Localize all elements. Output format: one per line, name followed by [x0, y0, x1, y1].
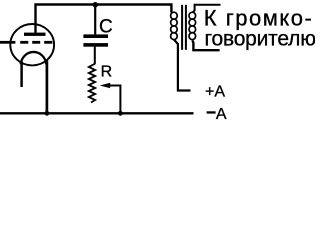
wire grid lead to left edge	[0, 41, 15, 44]
label -A minus bar	[207, 111, 216, 113]
tube V1 grid dashes	[20, 41, 28, 44]
capacitor C top plate	[83, 34, 108, 38]
wire top rail from anode to transformer primary	[36, 5, 172, 34]
wire secondary bottom terminal	[193, 41, 220, 51]
svg-text:А: А	[216, 106, 227, 122]
svg-text:C: C	[99, 16, 113, 37]
transformer T1 core	[181, 5, 183, 50]
wire wiper arm to -A rail	[108, 86, 120, 114]
transformer T1 primary winding	[171, 12, 178, 39]
resistor R zigzag	[89, 64, 95, 103]
wire secondary top terminal	[193, 5, 221, 13]
tube V1 envelope	[10, 24, 54, 65]
wire capacitor top lead	[94, 5, 96, 35]
node junction dot wiper to -A rail	[118, 111, 123, 116]
transformer T1 secondary winding	[189, 12, 196, 39]
tube V1 filament dome	[21, 52, 47, 64]
capacitor C bottom plate	[83, 43, 108, 47]
node junction dot capacitor to top rail	[93, 2, 98, 7]
wiper arrow head	[100, 83, 110, 89]
svg-text:говорителю: говорителю	[205, 27, 316, 50]
node junction dot filament to -A rail	[45, 111, 50, 116]
wire filament left lead	[20, 62, 23, 88]
wire capacitor to resistor	[94, 47, 96, 65]
wire -A bottom rail	[0, 112, 194, 114]
wire filament right lead down to -A rail	[46, 61, 49, 114]
wire primary bottom lead to +A	[174, 40, 191, 91]
svg-text:R: R	[101, 64, 113, 81]
tube V1 anode plate bar	[24, 33, 46, 36]
svg-text:+А: +А	[205, 84, 225, 101]
